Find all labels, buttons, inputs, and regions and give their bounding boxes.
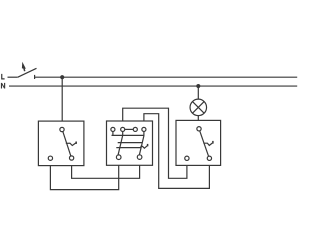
switch S3 box [176,120,221,165]
wire S2 out4 to S3 right [144,114,210,189]
switch S1 terminal left [48,156,52,160]
switch S3 actuator tip [212,141,214,144]
S2 terminal 4 [142,127,146,131]
node junction A [60,75,64,79]
S2 rung lower [116,147,141,149]
switch S1 common terminal [60,127,64,131]
S2 actuator tip [147,144,149,146]
wire L line [35,76,298,78]
intermediate switch S2 box [107,121,153,165]
contact tick [34,75,36,79]
switch blade main isolator [18,68,37,77]
wire N to lamp [197,86,199,99]
switch S1 blade [63,131,71,156]
wire L feed [8,76,18,78]
wire S2 out2 to S3 left [123,108,187,178]
wire lamp to switch S3 [197,116,199,121]
S2 terminal 1 [111,127,115,131]
S2 bridge bar [112,134,145,136]
switch S3 terminal left [185,156,189,160]
switch S3 terminal right [207,156,211,160]
S2 terminal 3 [133,127,137,131]
S2 stub terminal 1 [112,132,114,136]
node N label [1,83,5,89]
switch S1 actuator tip [75,142,77,144]
S2 blade right [139,135,144,155]
wire S1 left to S2 left [50,165,118,189]
S2 link terminals 2-3 [125,128,133,130]
lamp E1 cross [193,102,205,114]
actuation arrow [22,62,26,69]
S2 bottom terminal left [116,155,121,160]
S2 terminal 2 [121,127,125,131]
switch S3 common terminal [197,127,201,131]
S2 blade left [118,135,123,155]
switch S3 actuator wave [203,143,212,145]
wire S1 right to S2 right [72,165,140,178]
S2 bottom terminal right [137,155,142,160]
switch S1 box [38,121,84,166]
node junction B on N [196,84,200,88]
node L label [1,74,4,80]
S2 stub terminal 4 [143,132,145,136]
wire L to switch S1 [61,77,63,121]
wire N line [9,85,297,87]
switch S3 blade [200,131,209,156]
actuation arrow tail [23,68,26,71]
switch S1 actuator wave [66,143,76,146]
S2 rung upper [118,142,143,144]
S2 stub terminal 2 [122,132,124,136]
S2 actuator wave [140,146,147,148]
switch S1 terminal right [69,156,73,160]
lamp E1 [190,99,207,116]
